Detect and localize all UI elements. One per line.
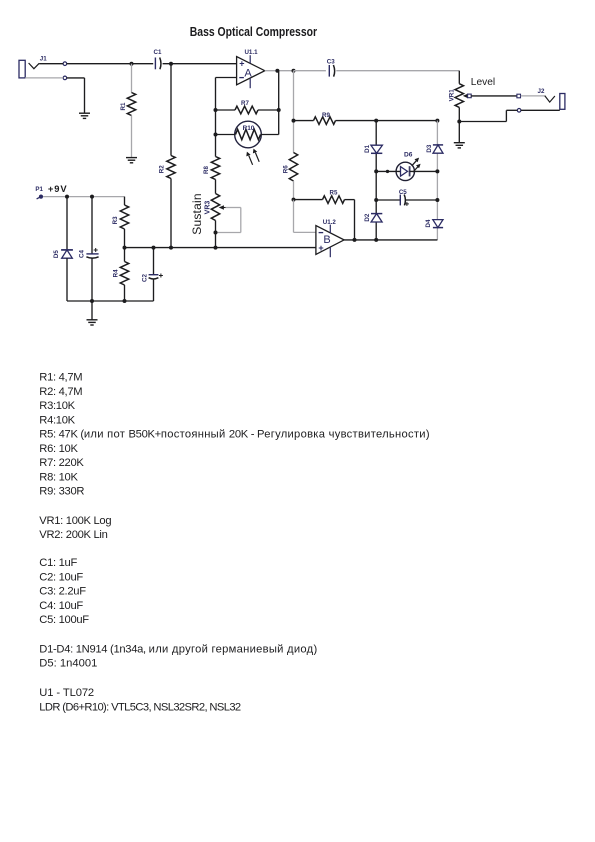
node: R7 left junction	[214, 108, 218, 112]
svg-text:D5: 1n4001: D5: 1n4001	[39, 658, 97, 670]
svg-text:R2: 4,7M: R2: 4,7M	[39, 386, 82, 398]
wire +9V rail	[43, 196, 124, 198]
wire bias rail to U1.2 +in	[125, 247, 316, 249]
svg-text:R6: R6	[282, 165, 289, 173]
diode D5	[53, 197, 73, 301]
node: D2 bottom junction	[374, 238, 378, 242]
svg-text:Level: Level	[471, 77, 495, 88]
svg-text:A: A	[244, 67, 252, 79]
svg-text:C2: C2	[142, 273, 149, 281]
node: C3 branch junction	[292, 69, 296, 73]
node: C2 top junction	[152, 246, 156, 250]
ground (power section)	[87, 301, 98, 325]
node: R3/R4 bias junction	[123, 246, 127, 250]
diode D2	[364, 213, 382, 222]
node: VR3 bottom junction	[214, 246, 218, 250]
resistor R4	[113, 248, 129, 301]
node: D3 top corner	[435, 119, 439, 123]
node: C4 top junction	[90, 195, 94, 199]
ground (below R1)	[126, 158, 137, 163]
svg-text:C5: C5	[399, 189, 407, 196]
svg-text:R9: R9	[322, 112, 330, 119]
potentiometer VR3 (Sustain)	[205, 194, 226, 248]
svg-text:C4: 10uF: C4: 10uF	[39, 600, 83, 612]
wire feedback column (output to R7/R10)	[278, 71, 280, 135]
wire bridge left column	[375, 121, 377, 240]
node: VR1 bottom junction	[457, 120, 461, 124]
wire to U1.2 -in	[294, 200, 316, 233]
LDR R10	[216, 121, 279, 148]
capacitor C1	[154, 49, 162, 69]
capacitor C2	[142, 248, 163, 301]
wire ground rail	[67, 300, 154, 302]
op-amp U1.1	[237, 49, 265, 88]
node: R2 top junction	[169, 62, 173, 66]
svg-text:U1 - TL072: U1 - TL072	[39, 687, 94, 699]
svg-text:D6: D6	[404, 151, 413, 158]
svg-text:R8: 10K: R8: 10K	[39, 472, 78, 484]
node: R5 feedback junction	[353, 238, 357, 242]
svg-text:VR1: VR1	[448, 89, 455, 102]
connector P1 (+9V)	[35, 186, 43, 199]
svg-text:R4:10K: R4:10K	[39, 415, 75, 427]
svg-text:+9V: +9V	[48, 183, 68, 194]
connector J2 (output jack)	[517, 88, 565, 112]
resistor R5	[294, 190, 355, 240]
node: C5 left junction	[374, 198, 378, 202]
svg-text:C3: C3	[327, 58, 335, 65]
wire U1.1 output	[265, 70, 294, 72]
svg-text:C4: C4	[78, 249, 85, 257]
node: C5 right junction	[435, 198, 439, 202]
capacitor C4	[78, 197, 98, 301]
svg-text:R1: R1	[120, 102, 127, 110]
wire VR1 wiper to J2 tip	[471, 95, 517, 97]
svg-text:B: B	[323, 234, 330, 246]
node: output junction	[275, 69, 279, 73]
node: C4 bottom junction	[90, 299, 94, 303]
capacitor C3	[294, 58, 460, 76]
capacitor C5	[376, 189, 437, 206]
svg-text:R4: R4	[113, 269, 120, 277]
connector J1 (input jack)	[19, 56, 67, 80]
potentiometer VR1 (Level)	[448, 71, 471, 122]
wire J1 sleeve	[25, 78, 84, 113]
svg-text:R6: 10K: R6: 10K	[39, 443, 78, 455]
resistor R1	[120, 64, 136, 158]
node: LED left junction	[374, 169, 378, 173]
diode D4	[425, 219, 443, 228]
svg-text:R3:10K: R3:10K	[39, 400, 75, 412]
op-amp U1.2	[316, 219, 344, 257]
node: R7 right junction	[277, 108, 281, 112]
svg-text:C1: 1uF: C1: 1uF	[39, 557, 77, 569]
svg-text:VR1: 100K Log: VR1: 100K Log	[39, 515, 111, 527]
svg-text:C2: 10uF: C2: 10uF	[39, 571, 83, 583]
wire C1 to U1.1 +in	[163, 63, 237, 65]
LED D6	[376, 151, 437, 180]
node: R10 left junction	[214, 133, 218, 137]
node: R6/R5 junction	[292, 198, 296, 202]
svg-text:D4: D4	[425, 219, 432, 227]
wire J1 tip to C1	[39, 63, 153, 65]
ground (J1 sleeve)	[79, 113, 90, 118]
svg-text:J1: J1	[40, 56, 47, 63]
svg-text:C3: 2.2uF: C3: 2.2uF	[39, 586, 86, 598]
wire U1.1 -in to feedback column	[216, 78, 237, 157]
node: R2 bottom junction	[169, 246, 173, 250]
svg-text:J2: J2	[538, 88, 545, 95]
svg-text:R7: R7	[241, 100, 249, 107]
resistor R2	[159, 64, 176, 248]
wire U1.2 output	[344, 239, 437, 241]
svg-text:C5: 100uF: C5: 100uF	[39, 614, 89, 626]
diode D1	[364, 144, 382, 153]
svg-text:D5: D5	[53, 250, 60, 258]
resistor R3	[112, 197, 129, 248]
svg-text:R5: 47K (или пот B50K+постоянн: R5: 47K (или пот B50K+постоянный 20K - Р…	[39, 429, 430, 441]
resistor R6	[282, 153, 297, 200]
svg-text:Bass Optical Compressor: Bass Optical Compressor	[190, 24, 318, 40]
svg-text:R2: R2	[159, 165, 166, 173]
wire C3 node down to R9/R6	[293, 71, 295, 153]
svg-text:R9: 330R: R9: 330R	[39, 486, 84, 498]
node: VR3 wiper tie junction	[214, 231, 218, 235]
resistor R7	[216, 100, 279, 114]
resistor R8	[203, 157, 220, 194]
svg-text:U1.1: U1.1	[244, 49, 258, 56]
svg-text:D1: D1	[364, 144, 371, 152]
node: LED right junction	[435, 169, 439, 173]
svg-text:R1: 4,7M: R1: 4,7M	[39, 372, 82, 384]
node: input/R1 junction	[130, 62, 134, 66]
resistor R9	[294, 112, 438, 124]
svg-text:D1-D4: 1N914 (1n34a, или друго: D1-D4: 1N914 (1n34a, или другой германие…	[39, 643, 317, 655]
svg-text:LDR (D6+R10): VTL5C3, NSL32SR2: LDR (D6+R10): VTL5C3, NSL32SR2, NSL32	[39, 701, 241, 713]
svg-text:R3: R3	[112, 216, 119, 224]
node: R9 tap junction	[292, 119, 296, 123]
svg-text:R7: 220K: R7: 220K	[39, 457, 84, 469]
wire J2 sleeve return	[459, 110, 560, 121]
svg-text:D3: D3	[426, 144, 433, 152]
svg-text:VR2: 200K Lin: VR2: 200K Lin	[39, 529, 107, 541]
svg-text:R5: R5	[330, 190, 338, 197]
svg-text:R10: R10	[243, 125, 255, 132]
svg-text:R8: R8	[203, 165, 210, 173]
diode D3	[426, 144, 443, 153]
svg-text:VR3: VR3	[205, 201, 212, 215]
svg-text:C1: C1	[154, 49, 162, 56]
light arrows out of D6	[412, 158, 421, 173]
node: D1 top junction	[374, 119, 378, 123]
light arrows into R10	[246, 149, 259, 165]
node: D5 top junction	[65, 195, 69, 199]
svg-text:U1.2: U1.2	[323, 219, 337, 226]
ground (below VR1)	[454, 122, 465, 148]
node: R4 bottom junction	[123, 299, 127, 303]
svg-text:D2: D2	[364, 213, 371, 221]
wire bridge right column	[436, 121, 438, 240]
svg-text:P1: P1	[35, 186, 43, 193]
wire VR3 wiper loop	[217, 208, 240, 233]
svg-text:Sustain: Sustain	[190, 193, 204, 234]
